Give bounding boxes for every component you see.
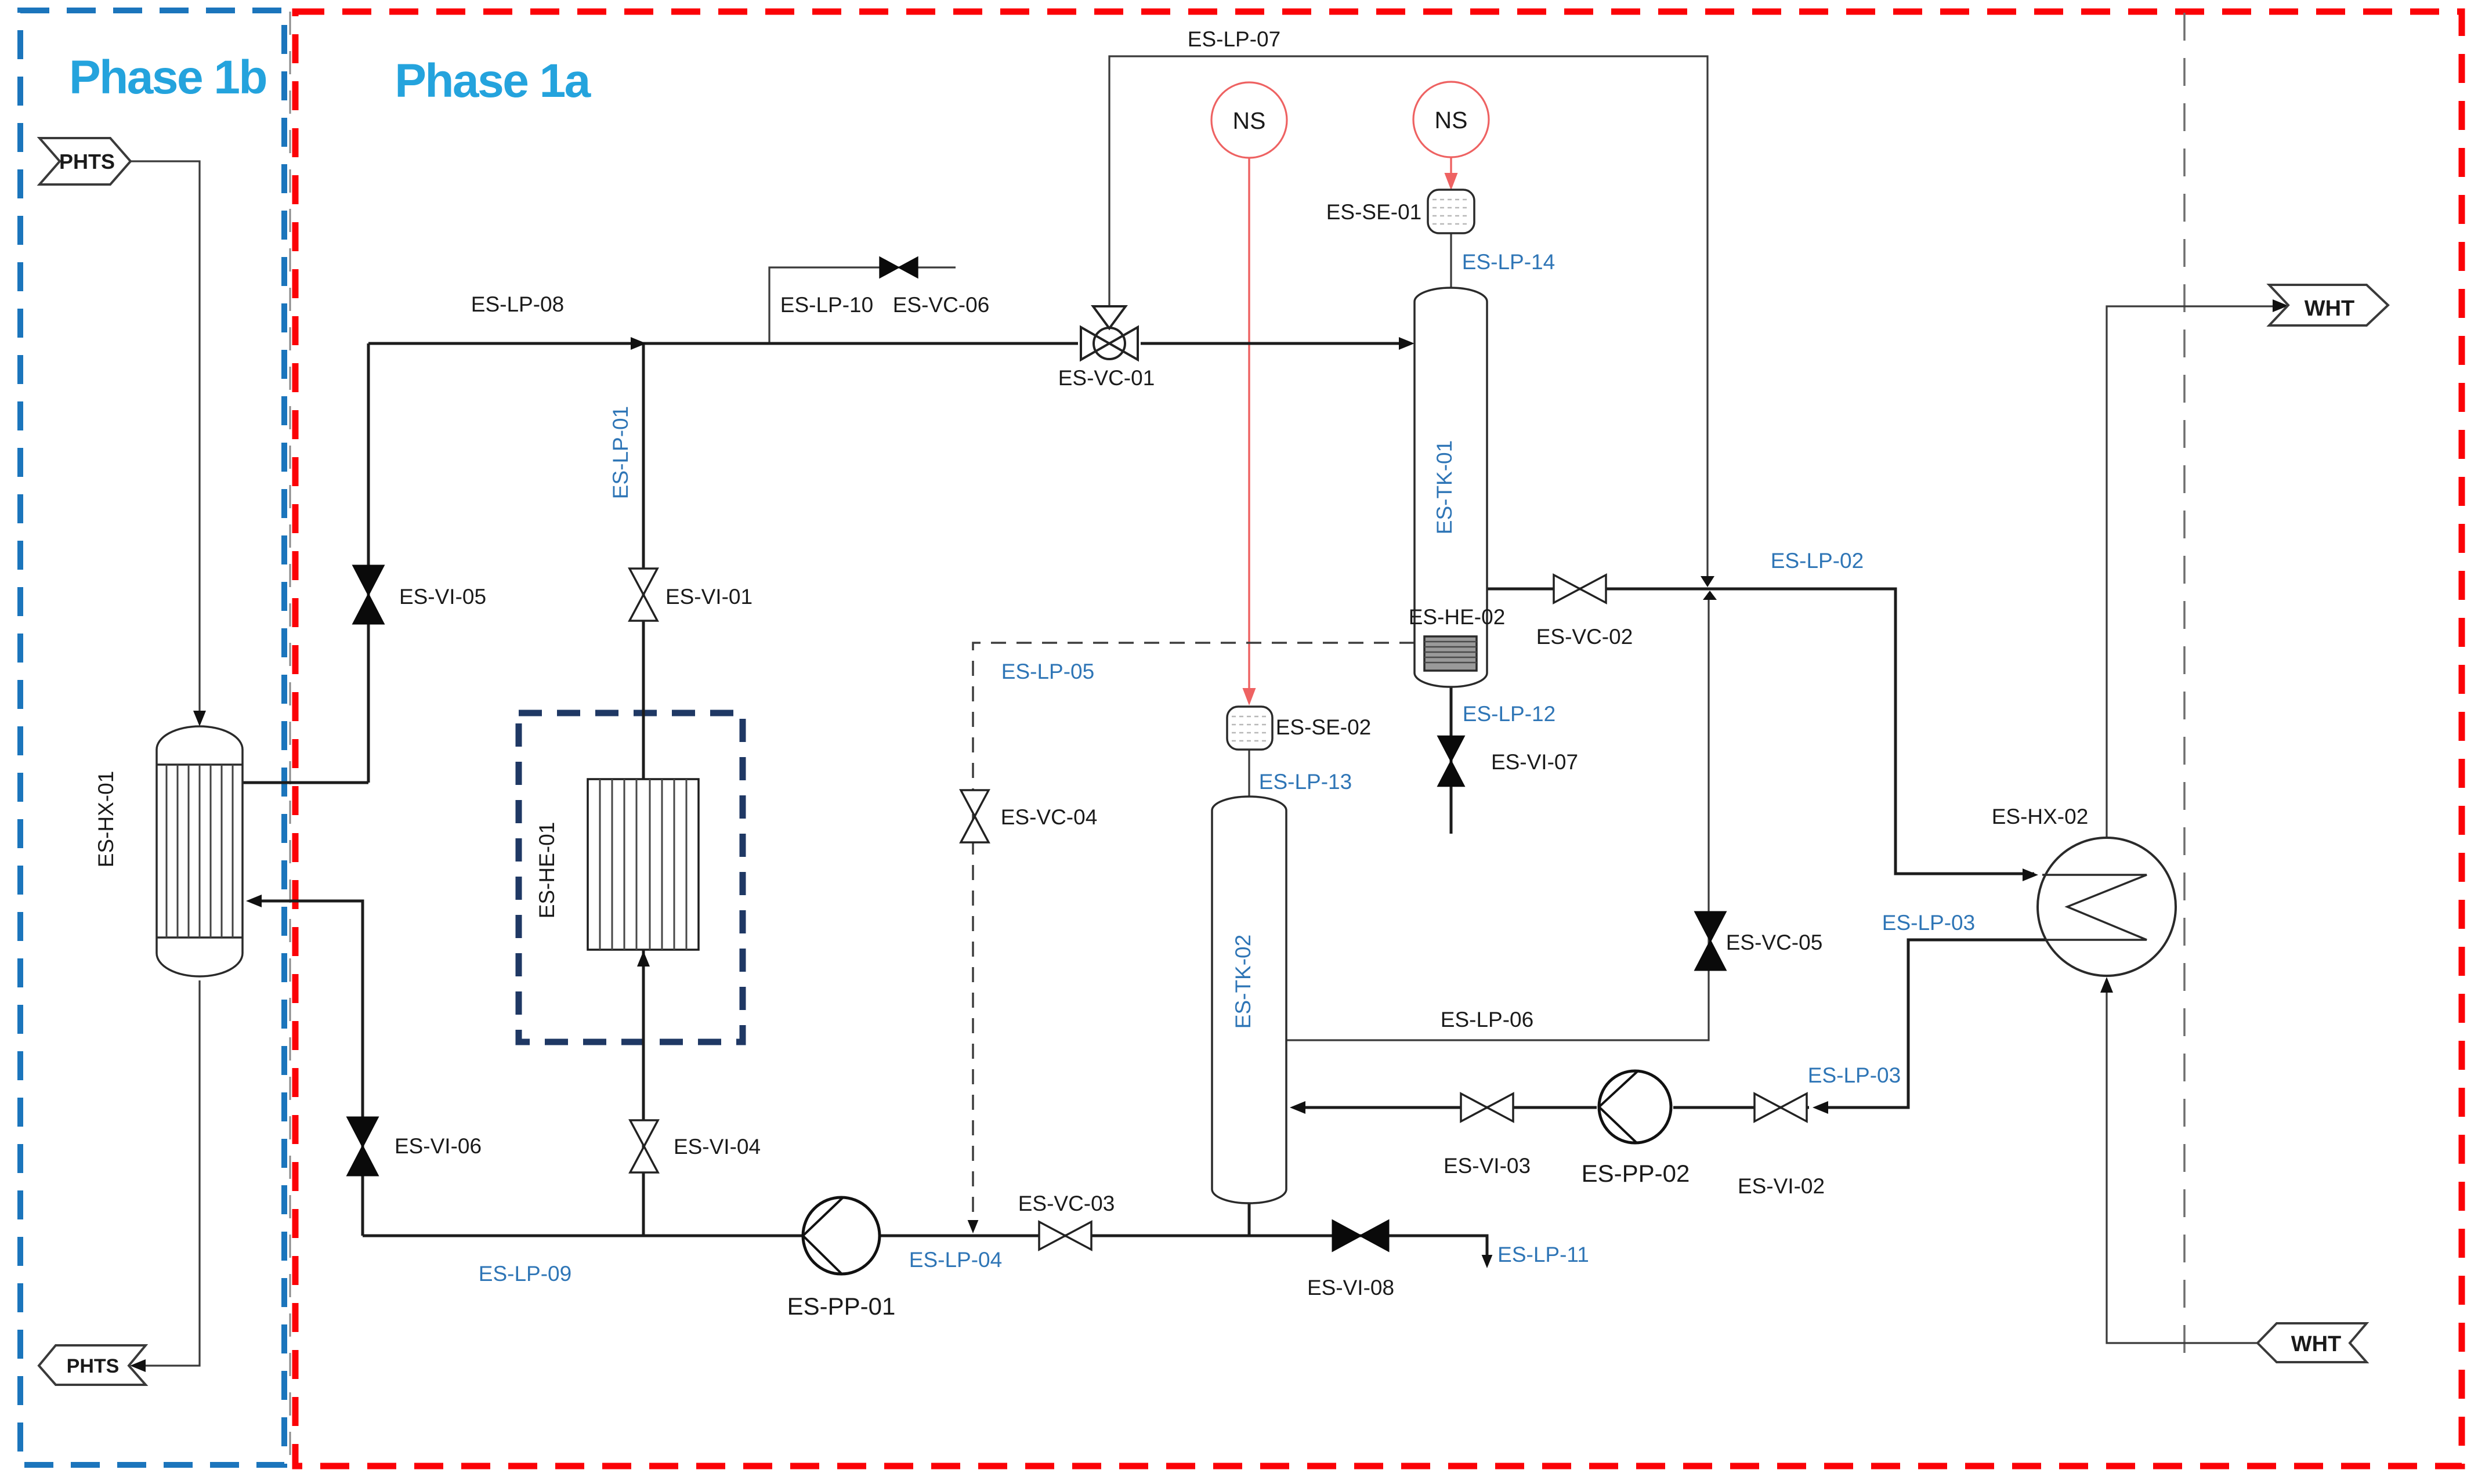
svg-text:ES-PP-02: ES-PP-02 — [1582, 1160, 1690, 1187]
svg-text:ES-HX-01: ES-HX-01 — [94, 771, 118, 868]
svg-text:ES-VI-07: ES-VI-07 — [1491, 750, 1578, 774]
svg-text:ES-LP-05: ES-LP-05 — [1001, 660, 1094, 683]
svg-text:ES-LP-03: ES-LP-03 — [1882, 911, 1975, 935]
svg-text:ES-LP-04: ES-LP-04 — [909, 1248, 1002, 1272]
svg-text:ES-LP-07: ES-LP-07 — [1188, 27, 1280, 51]
svg-text:ES-VI-01: ES-VI-01 — [665, 585, 753, 609]
svg-text:ES-VI-05: ES-VI-05 — [399, 585, 486, 609]
svg-text:ES-HE-02: ES-HE-02 — [1409, 605, 1506, 629]
svg-text:ES-LP-06: ES-LP-06 — [1441, 1008, 1533, 1031]
svg-text:ES-SE-02: ES-SE-02 — [1276, 715, 1372, 739]
svg-text:ES-VC-06: ES-VC-06 — [893, 293, 990, 317]
svg-text:NS: NS — [1435, 107, 1468, 133]
svg-text:WHT: WHT — [2291, 1332, 2342, 1356]
svg-text:ES-LP-03: ES-LP-03 — [1808, 1063, 1901, 1087]
svg-text:ES-LP-01: ES-LP-01 — [609, 406, 632, 499]
svg-text:ES-LP-13: ES-LP-13 — [1259, 770, 1352, 794]
svg-text:ES-LP-14: ES-LP-14 — [1462, 250, 1555, 274]
svg-text:ES-VI-06: ES-VI-06 — [395, 1134, 482, 1158]
svg-text:ES-SE-01: ES-SE-01 — [1326, 200, 1422, 224]
svg-text:ES-TK-02: ES-TK-02 — [1231, 935, 1255, 1029]
svg-text:PHTS: PHTS — [67, 1355, 120, 1377]
svg-text:ES-VC-01: ES-VC-01 — [1058, 366, 1155, 390]
svg-text:ES-HE-01: ES-HE-01 — [535, 822, 559, 919]
svg-text:ES-VC-05: ES-VC-05 — [1726, 931, 1823, 954]
svg-text:ES-VC-04: ES-VC-04 — [1001, 805, 1098, 829]
svg-text:ES-LP-08: ES-LP-08 — [471, 292, 564, 316]
svg-text:NS: NS — [1233, 107, 1266, 134]
svg-text:ES-LP-10: ES-LP-10 — [780, 293, 873, 317]
svg-text:ES-LP-11: ES-LP-11 — [1497, 1243, 1589, 1266]
svg-text:PHTS: PHTS — [59, 150, 115, 173]
svg-text:Phase 1a: Phase 1a — [395, 55, 591, 107]
svg-text:ES-LP-02: ES-LP-02 — [1771, 549, 1864, 573]
svg-text:ES-VC-03: ES-VC-03 — [1018, 1192, 1115, 1215]
svg-text:ES-VC-02: ES-VC-02 — [1536, 625, 1633, 649]
svg-text:ES-VI-08: ES-VI-08 — [1307, 1276, 1394, 1300]
svg-text:ES-VI-04: ES-VI-04 — [674, 1135, 761, 1159]
svg-text:ES-PP-01: ES-PP-01 — [787, 1293, 896, 1320]
svg-text:ES-HX-02: ES-HX-02 — [1992, 805, 2089, 828]
svg-text:ES-TK-01: ES-TK-01 — [1432, 440, 1456, 534]
svg-text:ES-VI-02: ES-VI-02 — [1738, 1174, 1825, 1198]
svg-text:ES-LP-09: ES-LP-09 — [479, 1262, 571, 1286]
svg-text:ES-LP-12: ES-LP-12 — [1463, 702, 1555, 726]
svg-text:ES-VI-03: ES-VI-03 — [1444, 1154, 1531, 1178]
svg-text:Phase 1b: Phase 1b — [69, 51, 266, 104]
svg-text:WHT: WHT — [2305, 296, 2355, 321]
